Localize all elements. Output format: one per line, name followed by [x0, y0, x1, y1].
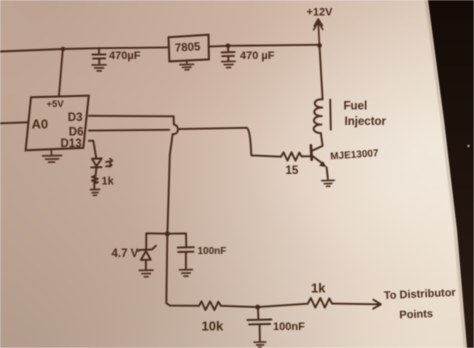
resistor R4 1k output	[308, 298, 332, 308]
resistor R1 15 ohm	[281, 152, 302, 160]
transistor Q1 base bar	[310, 145, 314, 159]
resistor R3 10k	[199, 301, 221, 310]
transistor Q1 emitter with arrow	[312, 155, 324, 164]
wire 10k to junction to 1k	[221, 304, 308, 307]
ground under 7805	[180, 61, 194, 70]
svg-text:Injector: Injector	[345, 116, 387, 128]
wire resistor to ground	[93, 183, 95, 189]
wire resistor to base	[302, 155, 311, 157]
injector core bar	[329, 100, 332, 130]
wire hop over D6 line	[173, 116, 178, 134]
svg-text:+5V: +5V	[47, 99, 65, 110]
svg-text:D13: D13	[61, 138, 82, 150]
wire from left edge to A0	[0, 122, 28, 123]
wire bend down to base resistor run	[247, 128, 281, 157]
LED emission arrows	[106, 159, 113, 167]
+12V arrow	[314, 19, 323, 46]
svg-text:10k: 10k	[202, 319, 224, 334]
svg-text:4.7 V: 4.7 V	[112, 248, 139, 260]
svg-text:+12V: +12V	[307, 7, 334, 19]
svg-text:1k: 1k	[311, 281, 326, 296]
capacitor C2 470uF	[222, 46, 235, 61]
svg-text:100nF: 100nF	[198, 246, 227, 257]
svg-text:470 µF: 470 µF	[240, 50, 275, 62]
inductor L1 fuel injector coil	[314, 99, 323, 133]
junction node at C2	[226, 44, 231, 49]
svg-text:100nF: 100nF	[273, 321, 305, 333]
A0 box (microcontroller)	[26, 96, 89, 151]
ground under zener	[139, 270, 153, 277]
background speck	[467, 145, 469, 147]
svg-text:A0: A0	[32, 117, 49, 132]
ground under C3	[179, 270, 192, 277]
wire node to zener	[146, 233, 167, 248]
wire D6 to bend	[89, 128, 247, 131]
wire zener node down to bottom rail	[166, 234, 199, 306]
wire from top rail down to A0 box	[59, 49, 63, 96]
svg-text:D3: D3	[68, 112, 83, 124]
capacitor C1 470uF	[92, 48, 105, 63]
junction node +12V rail	[317, 43, 322, 48]
ground under A0	[43, 150, 62, 162]
wire +12V node down to injector coil	[320, 46, 323, 100]
svg-text:15: 15	[286, 165, 299, 177]
svg-text:Fuel: Fuel	[344, 101, 368, 113]
ground under C1	[92, 65, 106, 71]
wire 7805 output to +12V node	[209, 45, 320, 47]
svg-text:7805: 7805	[175, 41, 202, 54]
capacitor C3 100nF	[178, 247, 194, 269]
capacitor C4 100nF output	[247, 307, 271, 341]
zener diode Z1 4.7V	[138, 246, 156, 260]
output arrowhead	[373, 300, 381, 309]
svg-text:1k: 1k	[102, 176, 115, 188]
ground under C2	[222, 61, 235, 67]
ground under C4	[254, 342, 266, 347]
svg-text:470µF: 470µF	[109, 50, 141, 62]
wire top rail from left edge to 7805	[0, 47, 169, 51]
wire 1k to output arrow	[332, 303, 379, 306]
junction node above A0	[61, 47, 66, 52]
svg-text:D6: D6	[69, 126, 84, 138]
zener node junction	[165, 231, 170, 236]
wire coil to transistor collector	[312, 133, 323, 151]
junction node at output cap	[255, 305, 260, 310]
resistor R2 1k (LED)	[92, 176, 98, 184]
dark background beyond paper right edge	[428, 0, 474, 348]
wire LED to resistor	[95, 167, 98, 175]
regulator U1 7805 box	[169, 35, 209, 62]
svg-text:Points: Points	[399, 308, 433, 321]
wire zener to ground	[145, 260, 147, 269]
wire hop down to zener node	[167, 134, 172, 234]
wire D3 to hop	[89, 115, 174, 118]
wire D13 to LED	[89, 141, 97, 159]
wire node to 100nF cap	[167, 233, 186, 246]
paper edge shadow	[425, 0, 468, 348]
ground under LED resistor	[91, 189, 100, 195]
LED D1	[91, 159, 102, 168]
emitter wire to ground	[327, 167, 328, 179]
ground at emitter	[322, 180, 334, 186]
